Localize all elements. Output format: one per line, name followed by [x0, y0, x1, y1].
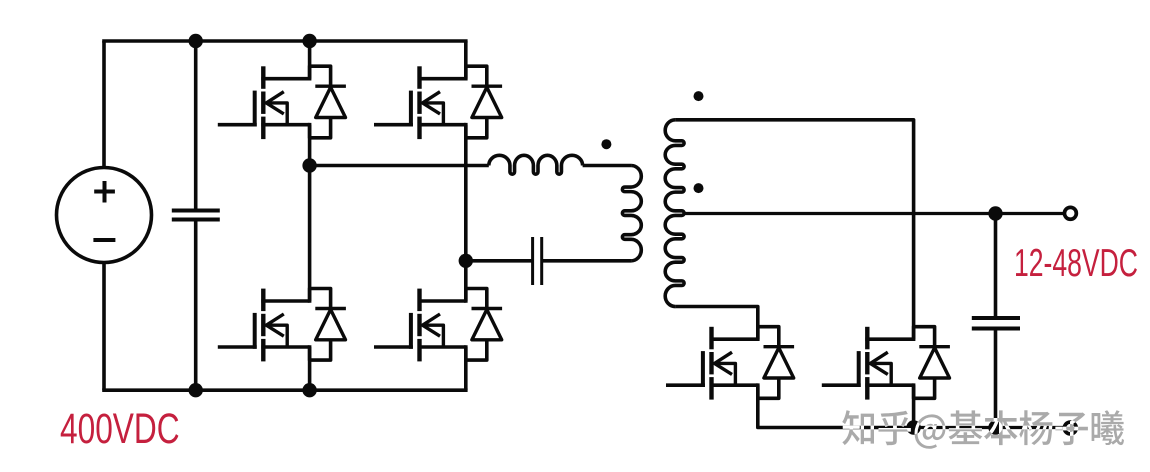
- transformer T1 secondary winding: [665, 120, 684, 307]
- wire center tap to output +: [683, 212, 996, 215]
- wire resonant capacitor to primary bottom: [542, 259, 632, 263]
- wire Q1 source to node A: [308, 125, 312, 166]
- watermark zhihu text: [842, 410, 1124, 449]
- secondary polarity dot mid: [694, 183, 704, 193]
- wire Q2 source to node B: [464, 125, 468, 261]
- wire Q4 drain to node B: [464, 261, 468, 301]
- DC source V1: [57, 168, 152, 263]
- svg-text:400VDC: 400VDC: [60, 404, 180, 452]
- transistor Q3 with body diode: [218, 289, 346, 362]
- wire Q5 source to output -rail: [758, 385, 914, 427]
- capacitor Cr plates: [531, 237, 534, 285]
- V1 plus sign: [94, 181, 115, 203]
- wire source top to +rail: [102, 41, 106, 168]
- output terminal +: [1064, 207, 1076, 219]
- transistor Q2 with body diode: [374, 66, 502, 139]
- capacitor Cout plates: [972, 316, 1020, 320]
- capacitor Cin bottom lead: [194, 222, 198, 391]
- wire Q6 source to -rail: [912, 385, 916, 427]
- V1 minus sign: [93, 238, 115, 242]
- junction -rail / Q6 source: [906, 420, 920, 434]
- svg-text:12-48VDC: 12-48VDC: [1014, 242, 1138, 285]
- junction node B: [459, 254, 473, 268]
- wire source bottom to -rail: [102, 263, 106, 391]
- inductor Lr: [489, 155, 583, 174]
- transistor Q4 with body diode: [374, 289, 502, 362]
- junction -rail / Cout: [988, 420, 1002, 434]
- transistor Q1 with body diode: [218, 66, 346, 139]
- wire +rail top: [102, 39, 467, 43]
- transistor Q6 synchronous rectifier with body diode: [822, 327, 950, 400]
- junction top rail / Q1 Q2: [302, 34, 316, 48]
- junction bottom rail / Cin: [189, 383, 203, 397]
- wire -rail bottom: [102, 388, 467, 392]
- wire node A to resonant inductor: [310, 164, 489, 168]
- wire node B to resonant capacitor: [466, 259, 533, 263]
- transformer T1 primary winding: [622, 166, 641, 261]
- wire Q4 source to -rail: [464, 347, 468, 390]
- junction bottom rail / Q3: [302, 383, 316, 397]
- wire output + to terminal: [996, 212, 1065, 215]
- wire Q3 drain to node A: [308, 166, 312, 302]
- wire secondary bottom to Q5 drain: [675, 307, 757, 340]
- junction top rail / Cin: [189, 34, 203, 48]
- wire Q1 drain to +rail: [308, 41, 312, 79]
- secondary polarity dot top: [694, 91, 704, 101]
- wire Q2 drain to +rail: [464, 41, 468, 79]
- primary polarity dot: [601, 139, 611, 149]
- wire inductor to primary top: [583, 164, 632, 168]
- output terminal -: [1064, 422, 1076, 434]
- junction node A: [302, 158, 316, 172]
- capacitor Cin top lead: [194, 41, 198, 209]
- wire Q3 source to -rail: [308, 347, 312, 390]
- transistor Q5 synchronous rectifier with body diode: [666, 327, 794, 400]
- wire output -rail: [914, 426, 1064, 429]
- wire secondary top to Q6 drain: [675, 120, 913, 339]
- capacitor Cout bottom lead: [994, 331, 998, 428]
- capacitor Cin plates: [172, 209, 220, 213]
- capacitor Cout top lead: [994, 214, 998, 317]
- junction output + / Cout: [988, 206, 1002, 220]
